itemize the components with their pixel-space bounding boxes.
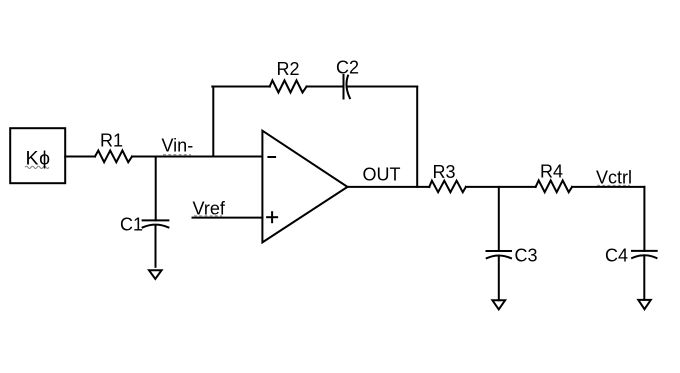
- svg-text:R4: R4: [540, 162, 563, 182]
- svg-text:Vref: Vref: [193, 198, 226, 218]
- svg-text:Kϕ: Kϕ: [26, 147, 51, 169]
- svg-text:C3: C3: [515, 246, 538, 266]
- svg-text:Vctrl: Vctrl: [596, 168, 632, 188]
- svg-text:C2: C2: [336, 58, 359, 78]
- svg-text:C4: C4: [605, 246, 628, 266]
- svg-text:R2: R2: [277, 59, 300, 79]
- svg-text:OUT: OUT: [363, 165, 401, 185]
- svg-text:R3: R3: [433, 162, 456, 182]
- svg-text:Vin-: Vin-: [162, 136, 194, 156]
- svg-text:C1: C1: [120, 215, 143, 235]
- svg-text:R1: R1: [100, 130, 123, 150]
